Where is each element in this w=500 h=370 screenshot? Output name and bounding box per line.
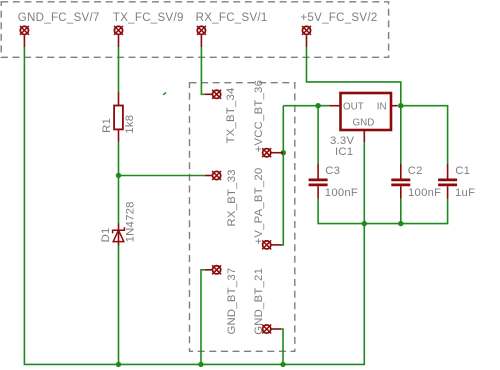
- svg-text:1N4728: 1N4728: [124, 201, 136, 242]
- junction on capacitor rail (GND vertical): [362, 221, 367, 226]
- svg-text:+5V_FC_SV/2: +5V_FC_SV/2: [300, 12, 377, 24]
- wire net +5V: IN pin green piece: [397, 105, 401, 107]
- svg-text:C1: C1: [455, 165, 470, 177]
- voltage regulator IC1: [330, 93, 397, 142]
- wire net +5V: IN junction down to C2: [400, 106, 402, 164]
- junction on capacitor rail (C2): [398, 221, 403, 226]
- svg-text:1uF: 1uF: [455, 187, 475, 199]
- pin GND_BT_37: [205, 265, 221, 274]
- IC1 IN pin stub: [391, 105, 397, 107]
- svg-text:100nF: 100nF: [408, 187, 441, 199]
- wire net RX: RX_FC_SV/1 down to TX_BT_34: [201, 47, 204, 94]
- svg-text:TX_BT_34: TX_BT_34: [225, 87, 237, 143]
- svg-text:GND_FC_SV/7: GND_FC_SV/7: [18, 12, 100, 24]
- wire net 3V3: C3 top leg: [317, 106, 319, 164]
- svg-text:RX_BT_33: RX_BT_33: [226, 169, 238, 226]
- port TX_FC_SV/9: [114, 26, 123, 47]
- wire net TX: R1 to junction node: [118, 142, 120, 176]
- wire net GND_BT_37 elbow down: [201, 270, 205, 365]
- junction at +VCC_BT_36 branch: [281, 150, 286, 155]
- wire net TX: from TX_FC_SV/9 to R1: [118, 47, 120, 92]
- wire net GND: capacitor bottom rail: [318, 199, 448, 224]
- BT module frame (dashed box): [190, 83, 295, 352]
- wire net GND_BT_21 elbow down: [281, 329, 283, 364]
- wire net TX: junction to D1: [118, 176, 120, 224]
- port GND_FC_SV/7: [20, 26, 29, 47]
- capacitor C3: [309, 164, 328, 199]
- svg-text:+VCC_BT_36: +VCC_BT_36: [253, 80, 265, 153]
- zener diode D1: [113, 223, 125, 245]
- svg-text:C3: C3: [325, 165, 340, 177]
- capacitor C2: [391, 164, 410, 199]
- IC1 GND pin stub: [363, 130, 365, 142]
- junction at R1 bottom branch: [116, 173, 121, 178]
- junction at IC1 IN: [398, 103, 403, 108]
- pin RX_BT_33: [205, 171, 221, 180]
- svg-text:GND: GND: [353, 117, 375, 128]
- pin TX_BT_34: [205, 90, 221, 99]
- svg-text:RX_FC_SV/1: RX_FC_SV/1: [196, 12, 268, 24]
- port +5V_FC_SV/2: [302, 26, 311, 47]
- junction at C3 tap: [315, 103, 320, 108]
- svg-text:+V_PA_BT_20: +V_PA_BT_20: [253, 168, 265, 245]
- svg-text:OUT: OUT: [343, 102, 364, 113]
- pin GND_BT_21: [262, 325, 281, 334]
- svg-text:IN: IN: [377, 102, 387, 113]
- wire net 3V3: down to +V_PA_BT_20: [282, 106, 284, 245]
- wire net +5V: from +5V_FC_SV/2 to IC1 IN: [307, 47, 401, 106]
- wire net TX: D1 to bottom wire: [118, 246, 120, 365]
- svg-text:GND_BT_21: GND_BT_21: [253, 268, 265, 335]
- svg-text:TX_FC_SV/9: TX_FC_SV/9: [113, 12, 184, 24]
- stray green speck: [163, 93, 166, 95]
- wire net GND: C2 bottom leg: [400, 199, 402, 224]
- svg-text:D1: D1: [100, 227, 112, 242]
- wire net GND: vertical to IC1 GND pin: [363, 142, 365, 224]
- wire net GND: GND_FC_SV/7 down: [24, 47, 364, 364]
- capacitor C1: [438, 164, 457, 199]
- connector frame SV (dashed box): [1, 2, 388, 58]
- resistor R1: [114, 92, 123, 142]
- junction on bottom wire (GND_BT_21): [280, 362, 285, 367]
- svg-text:GND_BT_37: GND_BT_37: [226, 268, 238, 335]
- svg-text:100nF: 100nF: [325, 187, 358, 199]
- svg-text:IC1: IC1: [335, 146, 353, 158]
- wire net 3V3: from IC1 OUT left: [283, 105, 330, 107]
- svg-text:C2: C2: [408, 165, 423, 177]
- svg-text:R1: R1: [101, 118, 113, 133]
- junction on bottom wire (D1 net): [116, 362, 121, 367]
- wire net +5V: branch to C1: [401, 106, 448, 164]
- pin +V_PA_BT_20: [262, 240, 281, 249]
- IC1 OUT pin stub: [330, 105, 341, 107]
- pin +VCC_BT_36: [262, 148, 283, 157]
- svg-text:1k8: 1k8: [124, 115, 136, 134]
- junction on bottom wire (GND_BT_37): [198, 362, 203, 367]
- port RX_FC_SV/1: [197, 26, 206, 47]
- wire net TX: branch to RX_BT_33: [119, 175, 205, 177]
